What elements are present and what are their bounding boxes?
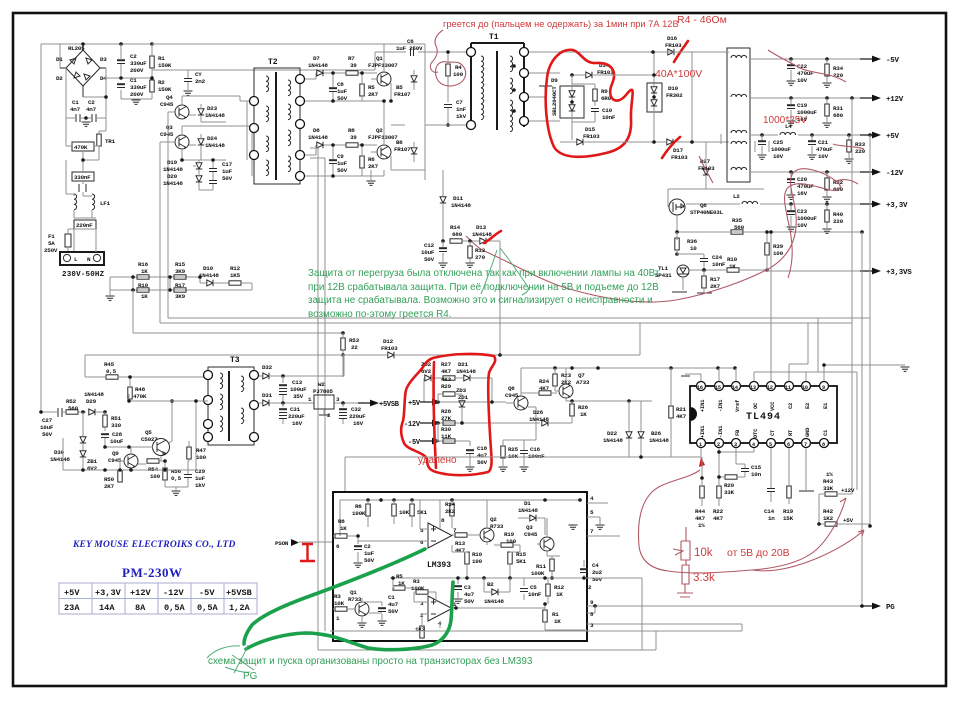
svg-text:R17: R17 xyxy=(175,282,186,289)
wire bus y578 xyxy=(390,577,587,579)
resistor R51 330 xyxy=(103,412,122,431)
svg-text:+5VSB: +5VSB xyxy=(379,401,400,409)
svg-text:R25: R25 xyxy=(508,446,519,453)
svg-text:D10: D10 xyxy=(668,85,679,92)
resistor R27 4K7 xyxy=(441,361,463,380)
transistor Q9 C945 xyxy=(108,447,146,470)
wire top bus xyxy=(41,44,425,412)
svg-text:+5VSB: +5VSB xyxy=(226,588,252,598)
svg-text:10: 10 xyxy=(690,245,697,252)
svg-text:1K: 1K xyxy=(554,618,561,625)
pin 16 xyxy=(697,382,707,413)
output choke L1 block xyxy=(660,48,750,182)
svg-text:R2: R2 xyxy=(158,79,165,86)
red pencil TL494 curve xyxy=(639,470,843,573)
svg-text:R36: R36 xyxy=(687,238,698,245)
svg-text:5: 5 xyxy=(769,442,772,448)
svg-text:1uF 250V: 1uF 250V xyxy=(396,45,423,52)
svg-text:C29: C29 xyxy=(195,468,206,475)
svg-text:D9: D9 xyxy=(551,77,558,84)
capacitor 330nF xyxy=(72,152,99,196)
svg-text:R13: R13 xyxy=(455,540,466,547)
svg-text:10k: 10k xyxy=(694,547,713,559)
green scribble PG xyxy=(207,645,254,673)
svg-text:Q6: Q6 xyxy=(508,385,515,392)
resistor R53 22 xyxy=(341,331,360,357)
svg-text:LM393: LM393 xyxy=(427,561,451,570)
wire T2 secondary row1 xyxy=(305,73,384,101)
svg-text:470K: 470K xyxy=(74,144,88,151)
svg-text:2K7: 2K7 xyxy=(104,483,115,490)
svg-text:1N4148: 1N4148 xyxy=(529,416,549,423)
svg-text:ZB1: ZB1 xyxy=(87,458,98,465)
svg-text:1K: 1K xyxy=(141,293,148,300)
svg-text:680: 680 xyxy=(452,231,463,238)
svg-text:Vref: Vref xyxy=(734,399,741,412)
transistor Q8 STP40NE03L mosfet xyxy=(668,186,764,232)
inductor L2 xyxy=(733,193,758,204)
svg-text:R19: R19 xyxy=(504,531,515,538)
resistor R4 100 xyxy=(446,50,464,102)
svg-text:Q2: Q2 xyxy=(376,127,383,134)
svg-text:100: 100 xyxy=(150,473,161,480)
svg-text:R31: R31 xyxy=(833,105,844,112)
svg-text:C10: C10 xyxy=(602,107,613,114)
svg-text:220nF: 220nF xyxy=(76,222,93,229)
bridge rectifier RL205 D1-D4 xyxy=(56,44,107,97)
svg-text:1K3: 1K3 xyxy=(415,626,426,633)
svg-text:1N4148: 1N4148 xyxy=(308,62,328,69)
svg-text:5: 5 xyxy=(420,527,424,534)
svg-text:1N4148: 1N4148 xyxy=(163,180,183,187)
svg-text:1kV: 1kV xyxy=(456,113,467,120)
resistor R6 100K xyxy=(352,500,370,527)
diode D23 1N4148 xyxy=(198,104,226,122)
svg-text:R14: R14 xyxy=(445,501,456,508)
svg-text:R22: R22 xyxy=(713,508,724,515)
svg-text:10V: 10V xyxy=(797,77,808,84)
red strike R33 xyxy=(833,144,864,149)
diode D1 1N4148 xyxy=(518,500,545,535)
svg-text:100: 100 xyxy=(506,538,517,545)
svg-text:5K1: 5K1 xyxy=(417,509,428,516)
op-amp U1 TL494 body xyxy=(690,386,837,443)
svg-text:R40: R40 xyxy=(833,211,844,218)
svg-text:FJPF13007: FJPF13007 xyxy=(368,62,398,69)
svg-text:N: N xyxy=(87,256,91,263)
svg-text:14: 14 xyxy=(732,385,738,391)
svg-text:200V: 200V xyxy=(130,67,144,74)
wire long buses xyxy=(133,277,870,333)
red mark circle around R4 xyxy=(435,62,465,86)
svg-text:+12V: +12V xyxy=(886,96,904,104)
wire row2 xyxy=(110,277,252,290)
wire -5V row xyxy=(436,423,470,446)
pin 14 xyxy=(732,382,742,413)
svg-text:D3: D3 xyxy=(100,56,107,63)
svg-text:C945: C945 xyxy=(524,531,538,538)
svg-text:1uF: 1uF xyxy=(195,475,206,482)
TL431 TL1 SP431 xyxy=(655,232,704,292)
wire pin7 gnd bar xyxy=(799,448,814,491)
svg-text:C2: C2 xyxy=(88,99,95,106)
resistor R52 560 xyxy=(63,398,86,414)
svg-text:10uF: 10uF xyxy=(40,424,54,431)
wire -12V row xyxy=(436,422,540,424)
svg-text:3: 3 xyxy=(420,600,424,607)
svg-text:50V: 50V xyxy=(592,576,603,583)
pin 11 xyxy=(785,382,795,410)
resistor R1 1K xyxy=(543,610,587,630)
svg-text:FR103: FR103 xyxy=(665,42,682,49)
dual diode D10 FR302 xyxy=(612,83,683,142)
wire pin2 C4 out xyxy=(587,578,642,650)
svg-text:C28: C28 xyxy=(112,431,123,438)
svg-text:TL1: TL1 xyxy=(658,265,669,272)
svg-text:FR302: FR302 xyxy=(666,92,683,99)
svg-text:PG: PG xyxy=(886,604,895,612)
resistor R23 2K2 xyxy=(553,368,572,391)
ground Q2 emitter xyxy=(367,170,376,185)
arrow -5V xyxy=(860,56,881,63)
svg-text:330uF: 330uF xyxy=(130,60,147,67)
svg-text:C945: C945 xyxy=(505,392,519,399)
wire pin10 to gnd xyxy=(806,318,818,381)
svg-text:C945: C945 xyxy=(160,131,174,138)
svg-text:E1: E1 xyxy=(822,402,829,409)
svg-text:R51: R51 xyxy=(111,415,122,422)
svg-text:150K: 150K xyxy=(158,62,172,69)
transistor Q2 FJPF13007 xyxy=(368,99,425,170)
svg-text:PM-230W: PM-230W xyxy=(122,565,183,580)
svg-text:50V: 50V xyxy=(364,557,375,564)
svg-text:D11: D11 xyxy=(453,195,464,202)
svg-text:1uF: 1uF xyxy=(337,88,348,95)
svg-text:1%: 1% xyxy=(698,522,705,529)
resistor R33 220 xyxy=(845,133,866,163)
capacitor C27 10uF 50V xyxy=(39,408,66,438)
svg-text:1N4148: 1N4148 xyxy=(205,112,225,119)
resistor R13 4K7 xyxy=(452,533,478,554)
svg-text:R34: R34 xyxy=(833,65,844,72)
svg-text:C24: C24 xyxy=(712,254,723,261)
wire +3.3V rail xyxy=(686,203,868,205)
wire pin9 PG line xyxy=(587,605,868,607)
svg-text:250V: 250V xyxy=(44,247,58,254)
svg-text:греется до (пальцем не одержат: греется до (пальцем не одержать) за 1мин… xyxy=(443,19,679,29)
svg-text:-5V: -5V xyxy=(408,439,421,447)
node dots top bus xyxy=(81,42,85,46)
transistor Q7 A733 xyxy=(555,368,641,403)
svg-text:330nF: 330nF xyxy=(74,174,91,181)
svg-text:CT: CT xyxy=(769,429,776,436)
red pencil strand B2 xyxy=(466,180,858,250)
green curve lower strand xyxy=(246,582,453,650)
resistor R6 2K7 xyxy=(360,143,379,176)
svg-text:35V: 35V xyxy=(293,393,304,400)
resistor R10 100 xyxy=(452,545,483,578)
svg-text:R50: R50 xyxy=(104,476,115,483)
wire link from y457 xyxy=(345,457,540,492)
svg-text:R8: R8 xyxy=(338,518,345,525)
svg-text:VCC: VCC xyxy=(769,401,776,411)
svg-text:R35: R35 xyxy=(732,217,743,224)
svg-text:0,5: 0,5 xyxy=(106,368,117,375)
svg-text:+3,3V: +3,3V xyxy=(95,588,122,598)
wire +5V row xyxy=(436,401,506,403)
red mark on D13 xyxy=(484,231,501,243)
wire pin11 xyxy=(789,323,808,381)
svg-text:FR103: FR103 xyxy=(583,133,600,140)
svg-text:D21: D21 xyxy=(458,361,469,368)
svg-text:50V: 50V xyxy=(424,256,435,263)
svg-text:R13: R13 xyxy=(475,247,486,254)
svg-text:Q3: Q3 xyxy=(526,524,533,531)
capacitor C28 10uF xyxy=(101,431,124,447)
svg-text:1N4148: 1N4148 xyxy=(205,142,225,149)
svg-text:27K: 27K xyxy=(441,415,452,422)
PSON input xyxy=(275,539,340,561)
svg-text:1K5: 1K5 xyxy=(230,272,241,279)
svg-text:D26: D26 xyxy=(533,409,544,416)
resistor 10K xyxy=(392,500,410,524)
svg-text:100uF: 100uF xyxy=(290,386,307,393)
red mark blob outline xyxy=(401,354,495,475)
pin 13 xyxy=(750,382,760,410)
svg-text:FR103: FR103 xyxy=(381,345,398,352)
resistor R5 2K7 xyxy=(360,71,379,101)
resistor R14 680 xyxy=(441,224,479,243)
svg-text:D20: D20 xyxy=(167,173,178,180)
LM393 sub-board box xyxy=(333,492,587,641)
svg-text:1kV: 1kV xyxy=(195,482,206,489)
resistor R22 4K7 xyxy=(713,486,724,522)
resistor R19b 100 xyxy=(494,531,520,552)
diode D29 1N4148 xyxy=(81,391,107,415)
svg-text:10V: 10V xyxy=(797,222,808,229)
svg-text:R16: R16 xyxy=(138,261,149,268)
svg-text:8A: 8A xyxy=(135,603,146,613)
svg-text:OC: OC xyxy=(752,402,759,409)
capacitor C1 330uF 200V xyxy=(106,77,152,99)
svg-text:R6: R6 xyxy=(368,156,375,163)
wire y355 left extension xyxy=(85,355,343,377)
svg-text:R12: R12 xyxy=(554,584,565,591)
arrow +5VSB xyxy=(358,400,379,407)
svg-text:Q7: Q7 xyxy=(578,372,585,379)
svg-text:11: 11 xyxy=(785,385,791,391)
resistor R11 100K xyxy=(531,556,554,580)
capacitor C22 470uF 10V xyxy=(787,57,815,85)
svg-text:DTC: DTC xyxy=(752,428,759,438)
svg-text:B2: B2 xyxy=(487,581,494,588)
diode D22 1N4148 xyxy=(603,401,632,457)
wire T3 base row xyxy=(129,394,208,470)
svg-text:R56: R56 xyxy=(171,468,182,475)
svg-text:Q1: Q1 xyxy=(376,55,383,62)
svg-text:39: 39 xyxy=(350,62,357,69)
svg-text:10K: 10K xyxy=(399,509,410,516)
svg-text:C1: C1 xyxy=(388,594,395,601)
red sketch resistor 3.3k xyxy=(677,565,715,597)
svg-text:R4 - 46Ом: R4 - 46Ом xyxy=(677,14,727,26)
svg-text:R53: R53 xyxy=(349,337,360,344)
diode D26 1N4148 xyxy=(529,409,572,426)
svg-text:R15: R15 xyxy=(175,261,186,268)
svg-text:1N4148: 1N4148 xyxy=(484,598,504,605)
capacitor C16 100nF xyxy=(520,440,546,471)
svg-text:RL205: RL205 xyxy=(68,45,85,52)
svg-text:14A: 14A xyxy=(99,603,115,613)
svg-text:C27: C27 xyxy=(42,417,53,424)
svg-text:D23: D23 xyxy=(207,105,218,112)
svg-text:C18: C18 xyxy=(477,445,488,452)
capacitor C13 100uF 35V xyxy=(279,376,307,403)
svg-text:4K3: 4K3 xyxy=(441,376,452,383)
svg-text:C32: C32 xyxy=(351,406,362,413)
svg-text:50V: 50V xyxy=(464,598,475,605)
svg-text:3: 3 xyxy=(336,396,340,403)
svg-text:R3: R3 xyxy=(334,593,341,600)
resistor R25 10K xyxy=(499,423,537,471)
wire comparator2 output xyxy=(452,604,545,609)
svg-text:R21: R21 xyxy=(676,406,687,413)
svg-text:C15: C15 xyxy=(751,464,762,471)
resistor R13 270 xyxy=(466,241,486,267)
svg-text:F1: F1 xyxy=(48,233,55,240)
svg-text:+5V: +5V xyxy=(886,133,900,141)
wire pin8 jumper xyxy=(587,606,595,613)
svg-text:R733: R733 xyxy=(490,523,504,530)
transistor Q5 C5027 xyxy=(105,399,174,461)
svg-text:16V: 16V xyxy=(797,190,808,197)
svg-text:100: 100 xyxy=(472,558,483,565)
resistor 470K xyxy=(66,118,99,151)
svg-text:1K: 1K xyxy=(340,525,347,532)
diode D17 FR103 xyxy=(652,134,729,161)
svg-text:5A: 5A xyxy=(48,240,55,247)
svg-text:PG: PG xyxy=(243,671,257,682)
resistor R14 2K2 xyxy=(445,500,456,528)
svg-text:6: 6 xyxy=(420,539,424,546)
svg-text:R29: R29 xyxy=(441,383,452,390)
svg-text:C8: C8 xyxy=(337,81,344,88)
svg-text:D7: D7 xyxy=(313,55,320,62)
svg-text:TL494: TL494 xyxy=(746,412,781,423)
svg-text:PSON: PSON xyxy=(275,540,289,547)
svg-text:+IN1: +IN1 xyxy=(699,425,706,438)
svg-text:1N4148: 1N4148 xyxy=(451,202,471,209)
svg-text:+12V: +12V xyxy=(841,487,855,494)
svg-text:PJ7805: PJ7805 xyxy=(313,388,333,395)
svg-text:2: 2 xyxy=(717,442,720,448)
resistor R35 560 xyxy=(684,217,790,234)
pin 1 xyxy=(697,425,707,448)
diode D27 FR103 xyxy=(698,156,715,186)
svg-text:D17: D17 xyxy=(673,147,684,154)
red arrow mark pin1 xyxy=(699,457,705,467)
transistor Q2 R733 xyxy=(478,500,504,545)
zener ZD3 xyxy=(456,387,469,423)
svg-text:+3,3VS: +3,3VS xyxy=(886,269,912,277)
wire pin9 xyxy=(822,363,909,381)
svg-text:-12V: -12V xyxy=(163,588,184,598)
svg-text:1n: 1n xyxy=(768,515,775,522)
arrow PG xyxy=(860,603,881,610)
red sketch resistor 10k arrow xyxy=(673,527,690,565)
svg-text:B5: B5 xyxy=(396,84,403,91)
ground row xyxy=(106,296,115,300)
wire +3.3VS rail xyxy=(767,270,868,272)
comparator 1 LM393a xyxy=(358,500,457,548)
svg-text:R5: R5 xyxy=(396,573,403,580)
resistor R18 1K xyxy=(689,256,769,272)
svg-text:C1: C1 xyxy=(822,429,829,436)
svg-text:50V: 50V xyxy=(477,459,488,466)
svg-text:3: 3 xyxy=(734,442,737,448)
zener ZD1 6V2 xyxy=(80,451,98,472)
svg-text:1uF: 1uF xyxy=(337,160,348,167)
svg-text:1K: 1K xyxy=(580,411,587,418)
resistor R50 2K7 xyxy=(104,461,122,490)
transistor Q4 C945 xyxy=(160,94,252,119)
svg-text:6: 6 xyxy=(787,442,790,448)
pin 5 xyxy=(767,429,777,448)
svg-text:2: 2 xyxy=(588,584,592,591)
diode D2 1N4148 xyxy=(484,578,510,605)
green curve upper strand xyxy=(244,549,425,644)
svg-text:D15: D15 xyxy=(585,126,596,133)
wire T1 bottom xyxy=(391,124,466,126)
transistor Q6 C945 xyxy=(505,385,536,423)
pin 15 xyxy=(715,382,725,413)
wire mid bus y232 xyxy=(677,142,862,232)
svg-text:680: 680 xyxy=(833,112,844,119)
svg-text:40A*100V: 40A*100V xyxy=(655,68,702,80)
svg-text:D19: D19 xyxy=(167,159,178,166)
resistor R17 3K9 xyxy=(174,282,186,300)
svg-text:1N4148: 1N4148 xyxy=(163,166,183,173)
resistor R44 4K7 1% xyxy=(695,457,706,529)
svg-text:D16: D16 xyxy=(667,35,678,42)
svg-text:C3: C3 xyxy=(464,584,471,591)
red mark near D16 xyxy=(674,41,688,62)
capacitor C24 10nF xyxy=(675,252,726,272)
resistor R31 680 xyxy=(823,96,844,127)
svg-text:1N4148: 1N4148 xyxy=(649,437,669,444)
resistor R29 4K3 xyxy=(438,376,462,402)
svg-text:D32: D32 xyxy=(262,364,273,371)
wire C6 branch xyxy=(152,52,466,70)
capacitor C2 1uF 50V xyxy=(354,534,375,567)
svg-text:22: 22 xyxy=(351,344,358,351)
svg-text:1N4148: 1N4148 xyxy=(603,437,623,444)
inductor L4 xyxy=(780,123,796,135)
svg-text:15: 15 xyxy=(715,385,721,391)
svg-text:R9: R9 xyxy=(601,88,608,95)
svg-text:CY: CY xyxy=(195,71,202,78)
svg-text:330uF: 330uF xyxy=(130,84,147,91)
svg-text:4n7: 4n7 xyxy=(70,106,81,113)
svg-text:возможно по-этому греется R4.: возможно по-этому греется R4. xyxy=(308,309,452,320)
svg-text:220: 220 xyxy=(833,218,844,225)
svg-text:L4: L4 xyxy=(785,123,792,130)
svg-text:R8: R8 xyxy=(348,127,355,134)
wire T1 secondary outputs xyxy=(529,52,660,121)
svg-text:C5027: C5027 xyxy=(141,436,158,443)
svg-text:R4: R4 xyxy=(455,64,462,71)
wire pin12 vcc up xyxy=(770,232,772,381)
